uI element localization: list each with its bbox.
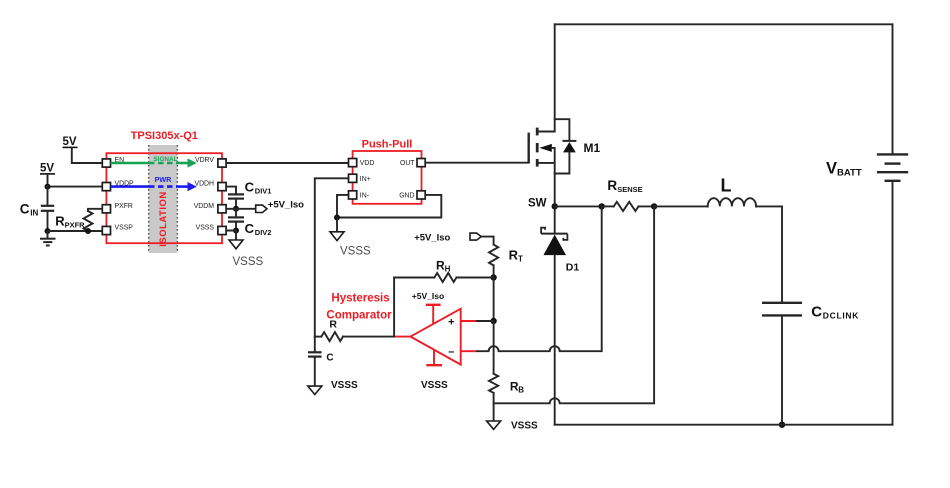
wire VSSS pin to ground [226, 231, 236, 241]
svg-text:C: C [326, 353, 333, 364]
pin OUT (U2) [400, 159, 425, 168]
svg-text:VSSP: VSSP [115, 225, 134, 232]
svg-text:–: – [448, 346, 454, 358]
comparator output stub [394, 336, 410, 338]
pwr arrow (blue) [111, 175, 197, 191]
pin EN [102, 157, 124, 167]
node VDDP/CIN top [45, 184, 51, 190]
svg-text:IN: IN [30, 209, 38, 218]
capacitor C (filter) [308, 337, 334, 387]
svg-text:DIV2: DIV2 [255, 228, 272, 237]
ground VSSS (U2) [330, 218, 371, 258]
svg-text:SENSE: SENSE [617, 185, 642, 194]
svg-text:BATT: BATT [837, 168, 862, 179]
terminal +5V_Iso (RT) [414, 233, 481, 244]
svg-text:VSSS: VSSS [196, 225, 215, 232]
svg-text:TPSI305x-Q1: TPSI305x-Q1 [131, 130, 198, 142]
svg-text:VDD: VDD [360, 160, 375, 167]
wire GND to ground node [337, 195, 441, 218]
node comparator plus input [490, 318, 496, 324]
pin PXFR [102, 203, 133, 213]
pin VDD (U2) [349, 159, 375, 168]
battery VBATT [826, 24, 908, 424]
node RPXFR bottom [85, 228, 91, 234]
svg-text:B: B [518, 386, 524, 395]
bottom rail VSSS [555, 424, 893, 426]
svg-text:IN-: IN- [360, 192, 369, 199]
resistor R [315, 319, 343, 342]
transistor M1 [529, 24, 601, 206]
svg-text:DIV1: DIV1 [255, 187, 272, 196]
capacitor CIN [20, 187, 54, 231]
svg-text:5V: 5V [63, 136, 77, 148]
svg-text:H: H [445, 265, 451, 274]
pin IN+ (U2) [349, 174, 371, 183]
pin VSSS [196, 225, 226, 235]
node RSENSE left [599, 203, 605, 209]
svg-text:VSSS: VSSS [340, 246, 371, 258]
svg-text:VSSS: VSSS [331, 380, 358, 391]
ground VSSS (RB) [487, 421, 538, 432]
wire VDRV to Push-Pull VDD [226, 162, 348, 164]
comparator bottom supply VSSS [421, 350, 448, 392]
IC U1 TPSI305x-Q1 body [106, 130, 222, 247]
pin VDRV [195, 157, 226, 167]
pin IN- (U2) [349, 191, 369, 200]
pin VDDH [194, 181, 226, 191]
svg-text:V: V [826, 160, 837, 178]
wire IN+ to RC node [315, 178, 349, 336]
comparator top supply +5V_Iso [412, 291, 444, 325]
svg-text:ISOLATION: ISOLATION [158, 191, 169, 247]
signal arrow (green) [111, 156, 197, 168]
svg-text:PXFR: PXFR [115, 203, 133, 210]
wire RH node to plus node [493, 278, 495, 322]
power label 5V (EN supply) [63, 136, 78, 148]
svg-text:D1: D1 [566, 262, 580, 274]
svg-text:C: C [245, 180, 255, 195]
svg-text:+5V_Iso: +5V_Iso [414, 233, 450, 244]
wire plus input [477, 320, 494, 322]
comparator U3 (hysteresis) [326, 292, 460, 364]
svg-text:IN+: IN+ [360, 176, 371, 183]
node CIN bottom [45, 228, 51, 234]
ground VSSS (C filter) [308, 380, 358, 395]
node U2 ground [334, 215, 340, 221]
node CDCLINK bottom [779, 422, 785, 428]
svg-text:VSSS: VSSS [421, 380, 448, 391]
svg-text:R: R [329, 319, 337, 331]
pin VSSP [102, 225, 133, 235]
comparator minus input stub [461, 350, 477, 352]
wire 5V to EN pin [72, 149, 102, 164]
svg-text:OUT: OUT [400, 160, 415, 167]
terminal +5V_Iso (VDDM) [256, 200, 304, 213]
svg-text:R: R [607, 178, 617, 193]
wire IN- to ground node [337, 195, 349, 218]
wire output to resistor R [343, 336, 394, 338]
svg-text:VSSS: VSSS [511, 421, 538, 432]
capacitor CDIV2 [228, 209, 271, 237]
wire 5V to VDDP node [48, 175, 103, 187]
svg-text:VDRV: VDRV [195, 157, 214, 164]
power label 5V (VDDP supply) [40, 163, 55, 175]
pin VDDP [102, 181, 134, 191]
resistor RH [394, 259, 494, 283]
node SW [528, 197, 558, 209]
wire plus node to RB [493, 321, 495, 374]
pin VDDM [194, 203, 226, 213]
node VSSS pin [233, 228, 239, 234]
svg-text:+5V_Iso: +5V_Iso [412, 291, 444, 301]
svg-text:C: C [245, 221, 255, 236]
svg-text:DCLINK: DCLINK [823, 311, 859, 321]
pin GND (U2) [399, 191, 425, 200]
wire OUT to M1 gate [425, 162, 528, 164]
svg-text:GND: GND [399, 192, 414, 199]
resistor RT [481, 237, 523, 278]
svg-text:C: C [20, 202, 30, 217]
svg-text:VDDM: VDDM [194, 203, 215, 210]
node VDDM [233, 206, 239, 212]
svg-text:T: T [518, 255, 523, 264]
comparator plus input stub [461, 320, 477, 322]
wire feedback RH to output [393, 278, 395, 337]
svg-text:L: L [721, 176, 732, 196]
svg-text:PXFR: PXFR [65, 221, 86, 230]
svg-text:Push-Pull: Push-Pull [362, 139, 413, 151]
svg-text:M1: M1 [584, 141, 601, 155]
node RT/RH [490, 274, 496, 280]
svg-text:VDDH: VDDH [194, 181, 214, 188]
resistor RPXFR [55, 209, 102, 231]
svg-text:C: C [811, 304, 822, 321]
wire RB bottom to RSENSE right (with hop) [494, 206, 654, 403]
ground (earth) at CIN [40, 231, 56, 246]
svg-text:VSSS: VSSS [233, 256, 264, 268]
svg-text:+5V_Iso: +5V_Iso [268, 200, 304, 211]
IC U1 TPSI305x-Q1 isolation band [149, 145, 178, 253]
resistor RSENSE [602, 178, 654, 211]
IC U2 Push-Pull body [353, 139, 422, 204]
capacitor CDCLINK [762, 206, 859, 424]
top rail VBATT [555, 23, 893, 25]
svg-text:PWR: PWR [155, 175, 173, 184]
wire minus input to SW divider (with hops) [477, 206, 602, 351]
wire VDDM to +5V_Iso tag [226, 208, 255, 210]
diode D1 (Schottky) [541, 206, 579, 424]
inductor L [654, 176, 782, 207]
svg-text:+: + [448, 316, 454, 328]
svg-text:Hysteresis: Hysteresis [331, 292, 389, 304]
resistor RB [489, 374, 524, 421]
wire SW rail [555, 205, 602, 207]
svg-text:SW: SW [528, 197, 547, 209]
wire CIN to VSSP pin [48, 230, 103, 232]
ground VSSS (CDIV2) [229, 240, 264, 268]
wire VDDH to CDIV1 [226, 187, 236, 194]
node RSENSE right [651, 203, 657, 209]
svg-text:5V: 5V [40, 163, 54, 175]
svg-text:SIGNAL: SIGNAL [153, 156, 177, 163]
capacitor CDIV1 [228, 180, 271, 209]
